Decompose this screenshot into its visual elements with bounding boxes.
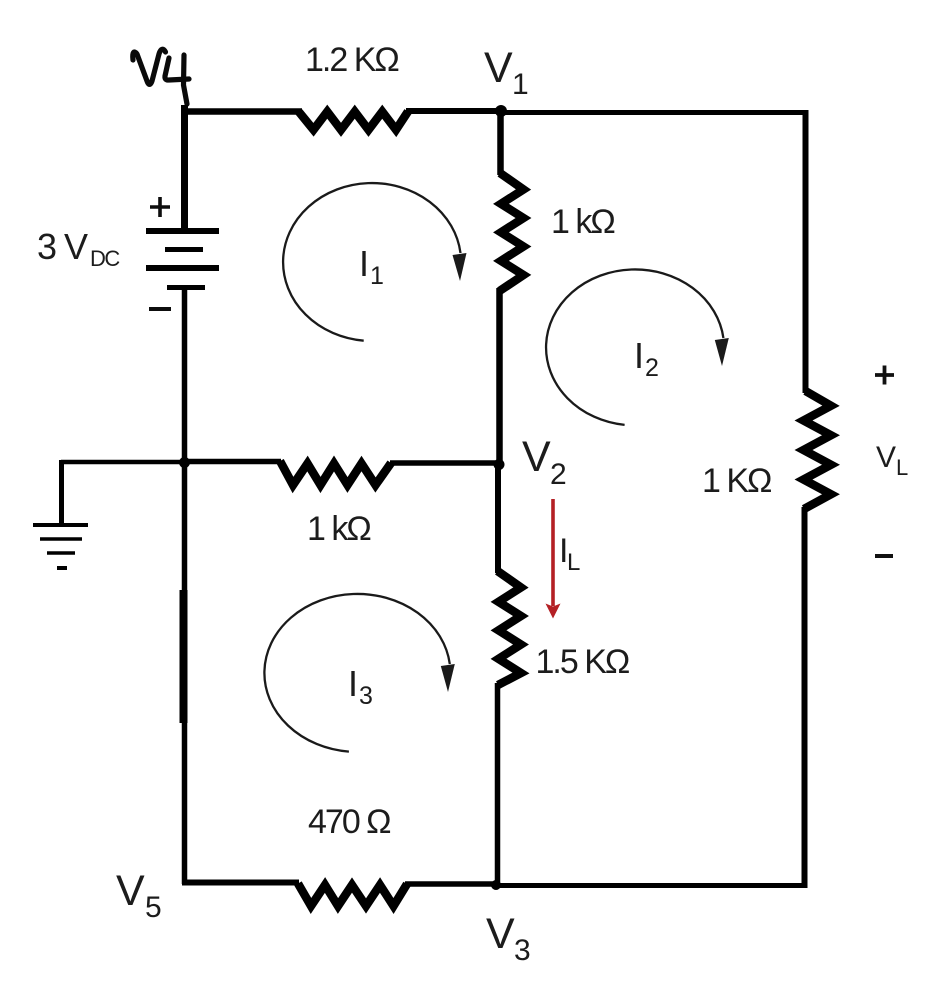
junction node left rail / middle wire	[179, 457, 190, 468]
svg-text:3: 3	[514, 934, 531, 967]
wire bottom rail left segment	[182, 880, 299, 886]
svg-text:2: 2	[550, 458, 567, 491]
svg-text:V: V	[486, 910, 515, 958]
svg-text:1 kΩ: 1 kΩ	[307, 510, 370, 548]
wire left rail below battery	[182, 287, 188, 884]
ground stub vertical	[59, 460, 64, 525]
svg-text:DC: DC	[90, 246, 120, 271]
wire top-left vertical (V4 to battery +)	[181, 105, 188, 233]
resistor 1 kΩ vertical (V1-V2)	[500, 173, 524, 291]
svg-text:470 Ω: 470 Ω	[308, 803, 390, 841]
loop current I3 arrowhead	[441, 664, 455, 692]
ground symbol bars	[33, 525, 88, 568]
svg-text:I: I	[634, 335, 644, 376]
svg-text:1: 1	[370, 262, 384, 290]
node V2 dot	[494, 459, 505, 470]
resistor 1 kΩ horizontal (middle)	[280, 461, 391, 485]
resistor 1.5 KΩ vertical	[498, 571, 522, 685]
svg-text:I: I	[359, 243, 369, 284]
wire top rail mid segment	[406, 108, 503, 114]
wire middle rail 1.5k resistor to V3	[495, 683, 501, 886]
wire bottom rail right segment	[497, 883, 807, 888]
svg-text:L: L	[896, 455, 908, 480]
svg-text:3 V: 3 V	[37, 226, 88, 267]
svg-text:L: L	[567, 549, 580, 576]
svg-text:V: V	[116, 867, 145, 915]
svg-text:I: I	[348, 663, 358, 704]
load minus sign	[875, 554, 893, 558]
svg-text:3: 3	[359, 682, 373, 710]
node V4 handwritten label	[133, 49, 189, 104]
wire middle horizontal right segment	[390, 460, 500, 466]
current IL red arrow	[546, 499, 561, 619]
svg-text:1.5 KΩ: 1.5 KΩ	[536, 643, 629, 681]
svg-text:2: 2	[645, 354, 659, 382]
wire middle horizontal left segment	[184, 459, 281, 465]
battery 3 VDC plates	[146, 231, 219, 288]
loop current I1 arc	[283, 183, 460, 341]
svg-text:1.2 KΩ: 1.2 KΩ	[305, 41, 398, 79]
resistor 1.2 KΩ	[299, 112, 408, 130]
svg-text:1 KΩ: 1 KΩ	[702, 462, 771, 500]
node V3 dot	[491, 880, 501, 890]
svg-text:1: 1	[512, 68, 529, 101]
svg-text:V: V	[522, 433, 551, 481]
loop current I2 arrowhead	[715, 338, 729, 366]
battery minus sign	[149, 307, 171, 311]
wire bottom rail mid segment	[405, 881, 499, 887]
ground wire horizontal	[61, 460, 186, 465]
wire middle rail resistor to V2	[496, 288, 503, 467]
wire left rail thick overlay	[180, 590, 188, 723]
load plus sign	[875, 366, 894, 385]
wire middle rail V1 to resistor	[497, 108, 504, 175]
wire right rail upper	[803, 110, 809, 393]
resistor 1 KΩ load vertical	[804, 391, 832, 509]
loop current I1 arrowhead	[453, 253, 467, 281]
svg-text:1 kΩ: 1 kΩ	[551, 203, 614, 241]
wire top rail left segment	[181, 108, 302, 115]
wire middle rail V2 to 1.5k resistor	[495, 462, 501, 573]
resistor 470 Ω	[298, 884, 407, 907]
wire right rail lower	[802, 507, 808, 888]
loop current I3 arc	[264, 594, 449, 752]
svg-text:V: V	[484, 44, 513, 92]
node V1 dot	[495, 105, 507, 117]
battery 3 VDC plus sign	[150, 197, 170, 217]
svg-text:V: V	[876, 441, 896, 474]
loop current I2 arc	[546, 269, 723, 424]
svg-text:5: 5	[145, 891, 162, 924]
wire top rail right segment	[499, 110, 808, 115]
